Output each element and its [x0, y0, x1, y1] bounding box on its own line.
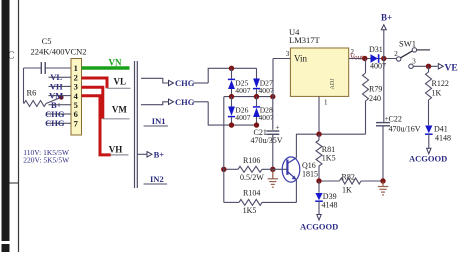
- wire VL (red): [82, 78, 108, 88]
- wire C5 left vertical: [23, 68, 25, 104]
- svg-text:4148: 4148: [322, 201, 338, 210]
- wire VN (green): [82, 66, 130, 70]
- svg-text:D41: D41: [434, 125, 448, 134]
- svg-text:IN2: IN2: [150, 174, 164, 184]
- svg-text:220V: 5K5/5W: 220V: 5K5/5W: [23, 156, 70, 165]
- svg-text:470u/35V: 470u/35V: [251, 136, 283, 145]
- resistor R82: [322, 180, 340, 182]
- svg-text:IN1: IN1: [152, 116, 166, 126]
- resistor R81: [318, 134, 320, 140]
- wire emitter down: [295, 180, 297, 203]
- node ADJ junction: [316, 132, 321, 137]
- wire R6 to VM pin: [46, 97, 61, 103]
- svg-text:D39: D39: [323, 192, 337, 201]
- port CHG (upper): [141, 78, 169, 83]
- svg-text:470u/16V: 470u/16V: [389, 124, 421, 133]
- svg-text:VN: VN: [109, 58, 122, 68]
- svg-text:1: 1: [324, 99, 328, 107]
- capacitor C22: [383, 59, 385, 123]
- svg-text:1K: 1K: [432, 88, 442, 97]
- ground (C21/base node): [270, 167, 275, 172]
- switch blade: [401, 51, 413, 58]
- svg-text:C: C: [8, 51, 15, 62]
- svg-text:2: 2: [351, 48, 355, 56]
- svg-text:CN2: CN2: [71, 47, 87, 57]
- svg-text:R122: R122: [432, 79, 449, 88]
- svg-text:1K5: 1K5: [243, 206, 257, 215]
- wire Vin to mid rail: [272, 59, 274, 97]
- svg-text:VM: VM: [112, 105, 127, 115]
- svg-text:1815: 1815: [302, 170, 318, 179]
- node B+/C22 tap: [381, 56, 386, 61]
- svg-text:C22: C22: [389, 115, 402, 124]
- diode D39: [318, 181, 320, 193]
- wire CHG1 to bridge: [208, 68, 231, 83]
- wire C21 bottom to ground node: [272, 134, 274, 169]
- wire R79 bottom to ADJ node: [296, 133, 366, 135]
- node R82/C22 ground: [380, 178, 385, 183]
- svg-text:+: +: [276, 123, 280, 131]
- svg-text:224K/400V: 224K/400V: [31, 47, 72, 57]
- node top rail dot: [229, 66, 234, 71]
- diode D26: [231, 97, 233, 107]
- svg-text:4007: 4007: [235, 113, 250, 122]
- resistor R122: [428, 66, 430, 72]
- diode D25: [231, 68, 233, 78]
- svg-text:VL: VL: [114, 77, 127, 87]
- port CHG (lower): [141, 102, 169, 105]
- svg-text:Vin: Vin: [294, 54, 307, 64]
- port B+ (transformer side): [138, 153, 148, 155]
- resistor R79: [365, 59, 367, 74]
- node Vin tap junction: [270, 94, 275, 99]
- svg-text:C5: C5: [42, 36, 52, 46]
- svg-text:R6: R6: [27, 88, 37, 98]
- diode D28: [256, 97, 258, 107]
- svg-text:1K5: 1K5: [322, 154, 336, 163]
- svg-text:ADJ: ADJ: [330, 78, 336, 90]
- ground (R82/C22): [382, 181, 384, 187]
- svg-text:0.5/2W: 0.5/2W: [240, 173, 264, 182]
- svg-text:R79: R79: [369, 85, 382, 94]
- diode D31: [371, 54, 378, 63]
- node VM junction dot: [59, 95, 64, 100]
- svg-text:R106: R106: [243, 156, 260, 165]
- page left black bar: [2, 0, 10, 252]
- node R79 tap: [362, 56, 367, 61]
- wire collector up: [295, 134, 297, 158]
- sheet border line: [18, 0, 20, 252]
- wire bridge bottom rail: [232, 124, 257, 126]
- svg-text:3: 3: [286, 50, 290, 58]
- node bottom rail left junction: [229, 122, 234, 127]
- wire bridge top rail: [232, 67, 257, 69]
- svg-text:VE: VE: [445, 63, 458, 73]
- svg-text:240: 240: [369, 94, 381, 103]
- node D25/D26 junction: [229, 94, 234, 99]
- svg-text:CHG: CHG: [175, 97, 195, 107]
- svg-text:4007: 4007: [259, 113, 274, 122]
- node D27/D28 junction: [254, 94, 259, 99]
- zone tick: [10, 182, 19, 184]
- wire Vout: [349, 58, 397, 60]
- transformer core: [134, 61, 136, 188]
- power port B+: [383, 30, 385, 59]
- wire bridge mid rail: [224, 96, 273, 98]
- transistor Q16: [282, 157, 300, 182]
- svg-text:ACGOOD: ACGOOD: [300, 222, 338, 232]
- node base of R81/R82/D39: [316, 178, 321, 183]
- wire mid-rail down the left side: [223, 97, 225, 203]
- diode D41: [425, 126, 432, 134]
- port VE: [438, 64, 443, 69]
- diode D27: [256, 68, 258, 78]
- svg-text:D31: D31: [369, 45, 383, 54]
- svg-text:4007: 4007: [259, 86, 274, 95]
- svg-text:7: 7: [74, 118, 79, 128]
- node bottom rail right junction: [254, 122, 259, 127]
- svg-text:VH: VH: [109, 145, 123, 155]
- wire VH (red): [82, 96, 111, 155]
- svg-text:CHG: CHG: [175, 78, 195, 88]
- svg-text:B+: B+: [381, 13, 392, 23]
- wire CHG2 to bridge bottom rail: [208, 102, 231, 125]
- capacitor C21: [272, 97, 274, 130]
- svg-text:R82: R82: [342, 172, 355, 181]
- svg-text:R104: R104: [243, 188, 260, 197]
- svg-text:4007: 4007: [235, 86, 250, 95]
- wire VM (red): [82, 87, 103, 119]
- svg-text:1K: 1K: [342, 185, 352, 194]
- node VE/R122 junction: [426, 64, 431, 69]
- svg-text:4148: 4148: [435, 134, 451, 143]
- node R106/base junction dot: [221, 167, 226, 172]
- wire pin3 to VE: [413, 65, 437, 67]
- svg-text:SW1: SW1: [399, 39, 416, 49]
- svg-text:B+: B+: [154, 150, 165, 160]
- svg-text:ACGOOD: ACGOOD: [409, 153, 447, 163]
- svg-text:3: 3: [412, 57, 416, 65]
- svg-text:LM317T: LM317T: [289, 35, 321, 45]
